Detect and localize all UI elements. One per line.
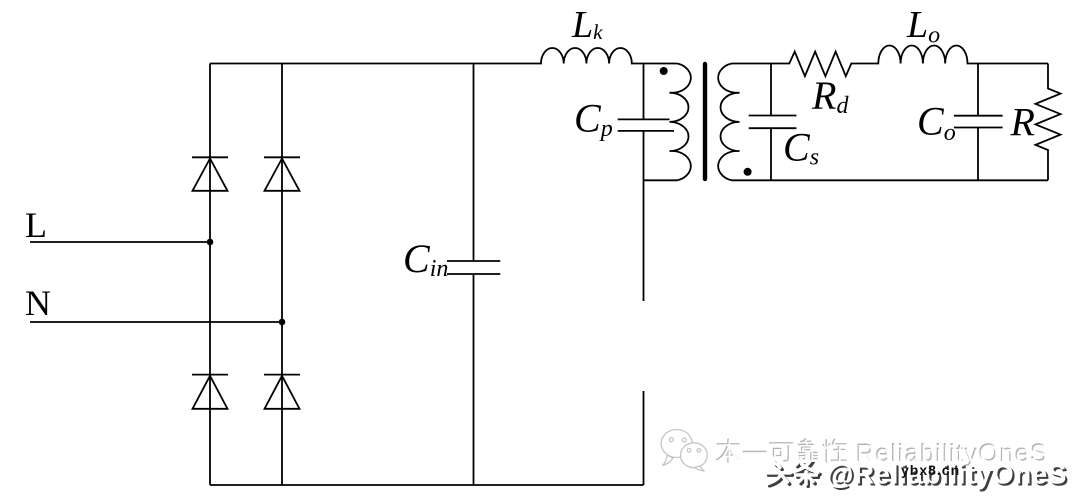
svg-text:Co: Co xyxy=(917,99,956,147)
svg-text:ybx8.cn: ybx8.cn xyxy=(901,462,960,478)
svg-text:Lk: Lk xyxy=(571,4,603,46)
svg-text:N: N xyxy=(25,283,51,323)
svg-text:Cp: Cp xyxy=(574,96,613,143)
svg-text:Lo: Lo xyxy=(906,4,940,49)
svg-text:Cs: Cs xyxy=(783,125,819,171)
svg-text:L: L xyxy=(25,205,47,245)
svg-text:R: R xyxy=(1010,100,1035,145)
svg-text:Rd: Rd xyxy=(811,73,849,119)
svg-text:Cin: Cin xyxy=(403,236,448,282)
